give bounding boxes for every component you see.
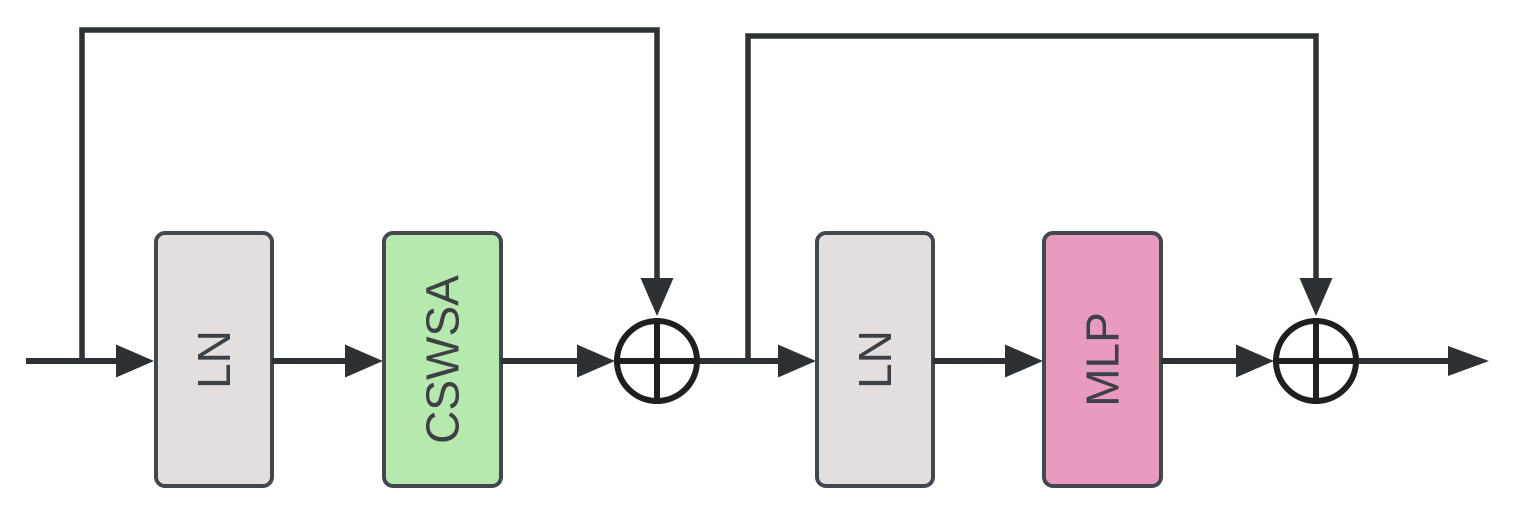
- adder circle 1: [617, 321, 697, 401]
- svg-text:CSWSA: CSWSA: [417, 275, 469, 444]
- wire MLP to adder 2: [1161, 358, 1240, 364]
- block CSWSA: [384, 233, 501, 486]
- arrowhead into adder 2: [1236, 345, 1274, 378]
- wire output: [1359, 358, 1453, 364]
- arrowhead skip1 into adder 1: [641, 278, 674, 316]
- svg-text:LN: LN: [188, 330, 240, 389]
- wire skip connection 2: [748, 36, 1316, 361]
- block MLP: [1044, 233, 1161, 486]
- svg-text:LN: LN: [849, 330, 901, 389]
- wire LN1 to CSWSA: [272, 358, 350, 364]
- svg-text:MLP: MLP: [1077, 312, 1129, 407]
- wire adder 1 to LN2: [700, 358, 782, 364]
- adder circle 2: [1276, 321, 1356, 401]
- arrowhead skip2 into adder 2: [1300, 278, 1333, 316]
- wire CSWSA to adder 1: [501, 358, 580, 364]
- wire skip connection 1: [82, 30, 657, 361]
- arrowhead output: [1448, 346, 1489, 376]
- block LN1: [156, 233, 272, 486]
- block LN2: [817, 233, 933, 486]
- arrowhead into LN1: [116, 345, 154, 378]
- wire LN2 to MLP: [933, 358, 1010, 364]
- adder cross 2: [1273, 318, 1359, 404]
- wire input: [26, 358, 120, 364]
- arrowhead into LN2: [778, 345, 816, 378]
- adder cross 1: [614, 318, 700, 404]
- arrowhead into CSWSA: [345, 345, 383, 378]
- arrowhead into adder 1: [577, 345, 615, 378]
- arrowhead into MLP: [1005, 345, 1043, 378]
